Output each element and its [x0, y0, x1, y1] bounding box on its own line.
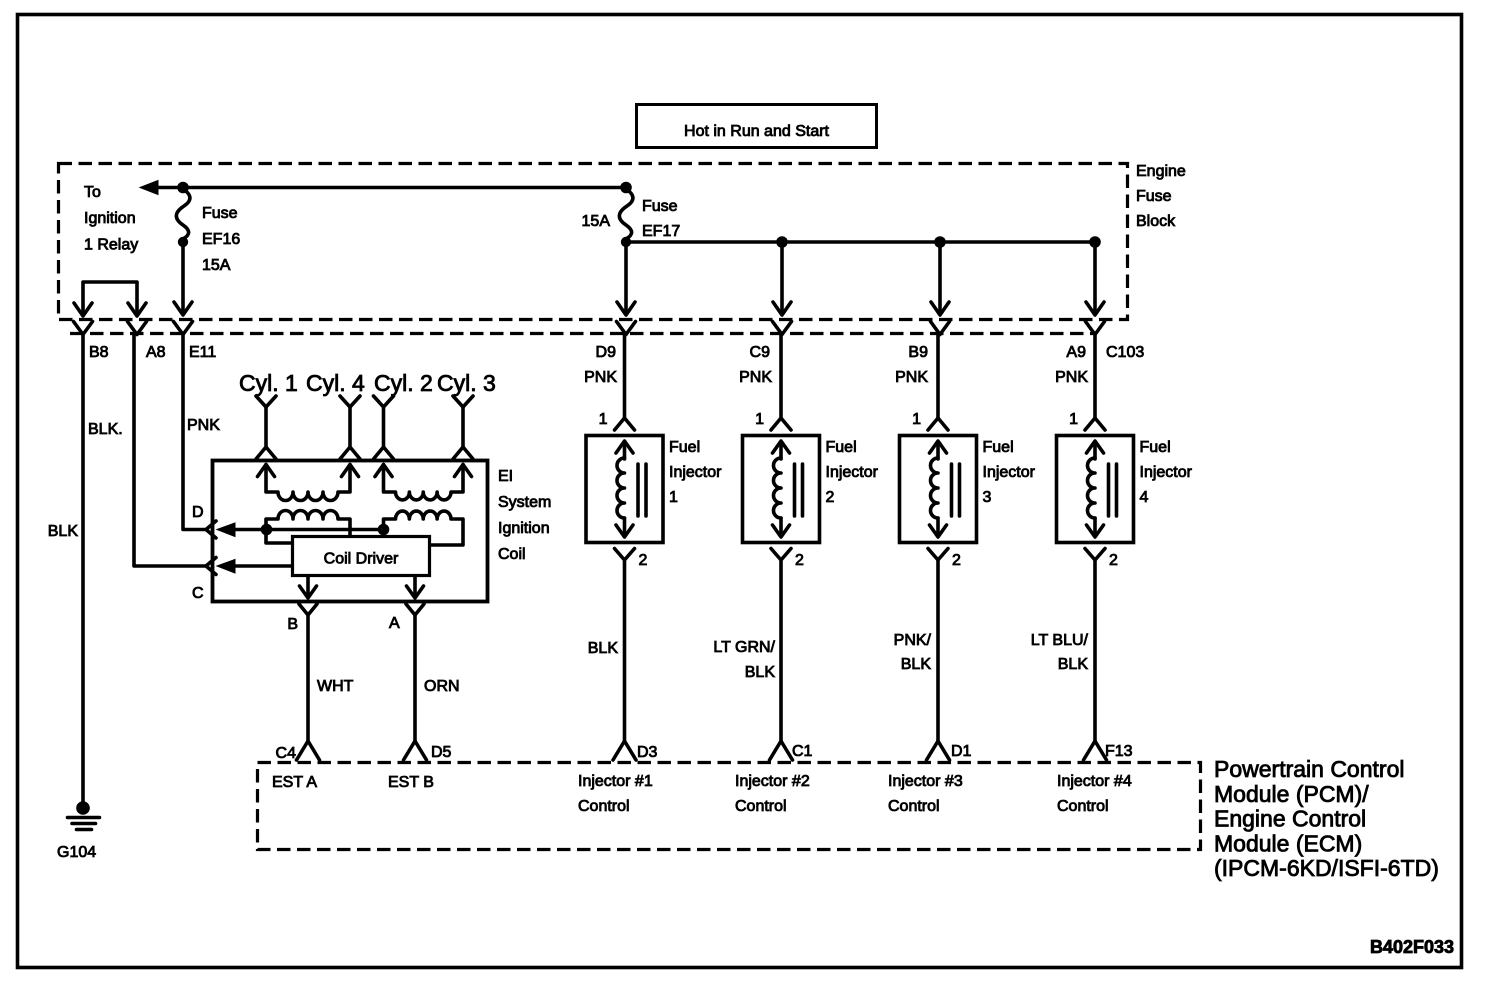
svg-text:A8: A8: [146, 344, 166, 361]
svg-text:Injector #2: Injector #2: [735, 773, 810, 790]
svg-text:2: 2: [1109, 552, 1118, 569]
svg-text:Engine: Engine: [1136, 163, 1186, 180]
svg-text:PNK/: PNK/: [894, 632, 932, 649]
svg-text:D9: D9: [596, 344, 617, 361]
svg-text:2: 2: [826, 489, 835, 506]
svg-text:Injector #4: Injector #4: [1057, 773, 1132, 790]
svg-text:Ignition: Ignition: [498, 520, 550, 537]
svg-text:ORN: ORN: [424, 678, 460, 695]
svg-text:Fuse: Fuse: [1136, 188, 1172, 205]
svg-text:E11: E11: [189, 344, 216, 361]
svg-text:Coil: Coil: [498, 546, 526, 563]
svg-text:BLK.: BLK.: [88, 421, 123, 438]
svg-text:EST B: EST B: [388, 774, 434, 791]
svg-text:1: 1: [599, 411, 608, 428]
svg-text:B9: B9: [908, 344, 928, 361]
svg-text:Coil Driver: Coil Driver: [324, 551, 399, 568]
svg-text:D5: D5: [431, 744, 452, 761]
svg-text:Control: Control: [578, 798, 630, 815]
svg-text:15A: 15A: [582, 213, 611, 230]
svg-text:Engine Control: Engine Control: [1214, 806, 1366, 832]
svg-text:C9: C9: [750, 344, 771, 361]
svg-text:D: D: [192, 504, 204, 521]
svg-text:PNK: PNK: [1055, 369, 1088, 386]
svg-text:BLK: BLK: [588, 640, 619, 657]
svg-text:4: 4: [1140, 489, 1149, 506]
svg-text:Fuel: Fuel: [983, 439, 1014, 456]
svg-text:1: 1: [912, 411, 921, 428]
svg-text:PNK: PNK: [895, 369, 928, 386]
svg-text:BLK: BLK: [1058, 656, 1089, 673]
svg-text:Cyl. 2: Cyl. 2: [374, 370, 433, 396]
svg-text:Injector: Injector: [826, 464, 879, 481]
svg-text:PNK: PNK: [187, 417, 220, 434]
svg-text:LT BLU/: LT BLU/: [1031, 632, 1089, 649]
svg-text:1: 1: [669, 489, 678, 506]
svg-text:BLK: BLK: [901, 656, 932, 673]
svg-text:2: 2: [639, 552, 648, 569]
svg-text:LT GRN/: LT GRN/: [713, 639, 775, 656]
svg-text:Powertrain Control: Powertrain Control: [1214, 756, 1404, 782]
svg-text:Cyl. 3: Cyl. 3: [437, 370, 496, 396]
svg-text:F13: F13: [1105, 743, 1133, 760]
svg-text:Injector: Injector: [983, 464, 1036, 481]
svg-text:BLK: BLK: [745, 664, 776, 681]
svg-text:C4: C4: [276, 745, 297, 762]
svg-text:A9: A9: [1066, 344, 1086, 361]
svg-text:1 Relay: 1 Relay: [84, 237, 138, 254]
svg-text:PNK: PNK: [739, 369, 772, 386]
svg-text:15A: 15A: [202, 257, 231, 274]
svg-text:EF16: EF16: [202, 231, 240, 248]
svg-text:Module (PCM)/: Module (PCM)/: [1214, 781, 1369, 807]
svg-text:G104: G104: [57, 844, 96, 861]
svg-text:To: To: [84, 184, 101, 201]
svg-text:B402F033: B402F033: [1370, 937, 1454, 957]
svg-text:C103: C103: [1106, 344, 1144, 361]
svg-text:1: 1: [1069, 411, 1078, 428]
svg-text:Injector #1: Injector #1: [578, 773, 653, 790]
svg-text:B8: B8: [89, 344, 109, 361]
svg-text:D3: D3: [637, 744, 658, 761]
svg-text:Fuel: Fuel: [826, 439, 857, 456]
svg-text:Injector: Injector: [669, 464, 722, 481]
svg-text:Control: Control: [735, 798, 787, 815]
svg-text:WHT: WHT: [317, 678, 354, 695]
svg-text:BLK: BLK: [48, 523, 79, 540]
svg-text:Cyl. 4: Cyl. 4: [306, 370, 365, 396]
svg-text:Ignition: Ignition: [84, 210, 136, 227]
svg-text:EF17: EF17: [642, 223, 680, 240]
svg-text:Fuse: Fuse: [642, 198, 678, 215]
svg-text:C1: C1: [792, 743, 813, 760]
svg-text:2: 2: [952, 552, 961, 569]
svg-text:Module (ECM): Module (ECM): [1214, 830, 1362, 856]
svg-text:EI: EI: [498, 468, 513, 485]
svg-text:Hot in Run and Start: Hot in Run and Start: [684, 123, 830, 140]
svg-text:Control: Control: [888, 798, 940, 815]
svg-text:Fuse: Fuse: [202, 205, 238, 222]
svg-text:B: B: [287, 616, 298, 633]
svg-text:C: C: [192, 585, 204, 602]
svg-text:System: System: [498, 494, 551, 511]
svg-text:Cyl. 1: Cyl. 1: [239, 370, 298, 396]
svg-text:Fuel: Fuel: [1140, 439, 1171, 456]
svg-text:Injector: Injector: [1140, 464, 1193, 481]
svg-text:2: 2: [795, 552, 804, 569]
svg-text:(IPCM-6KD/ISFI-6TD): (IPCM-6KD/ISFI-6TD): [1214, 855, 1439, 881]
svg-text:D1: D1: [951, 743, 972, 760]
svg-text:3: 3: [983, 489, 992, 506]
svg-text:A: A: [389, 615, 400, 632]
svg-text:Injector #3: Injector #3: [888, 773, 963, 790]
svg-text:Fuel: Fuel: [669, 439, 700, 456]
svg-text:1: 1: [755, 411, 764, 428]
svg-text:EST A: EST A: [272, 774, 317, 791]
svg-text:Control: Control: [1057, 798, 1109, 815]
svg-text:Block: Block: [1136, 213, 1176, 230]
svg-text:PNK: PNK: [584, 369, 617, 386]
